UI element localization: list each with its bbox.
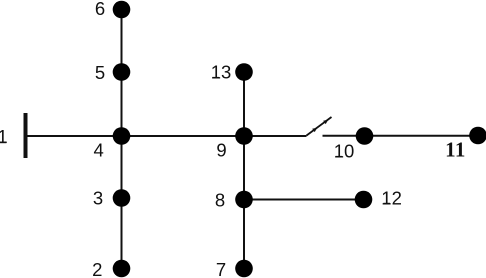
- svg-text:10: 10: [334, 141, 355, 162]
- node 6: [113, 1, 131, 19]
- node 9 (junction): [235, 127, 253, 145]
- node 3: [113, 189, 131, 207]
- node 7: [235, 260, 253, 278]
- svg-text:11: 11: [445, 137, 466, 161]
- node 11: [469, 127, 486, 145]
- wire: main feeder horizontal from bus 1 bar to switch gap: [26, 135, 307, 137]
- bus bar node 1: [24, 113, 28, 158]
- node 8 (junction): [235, 191, 253, 209]
- svg-text:12: 12: [381, 187, 402, 208]
- svg-text:3: 3: [93, 187, 103, 208]
- node 5: [113, 63, 131, 81]
- node 12: [355, 191, 373, 209]
- svg-text:2: 2: [92, 259, 102, 278]
- wire: branch from node 8 to node 12: [244, 199, 364, 201]
- node 4 (junction): [113, 127, 131, 145]
- wire: right feeder horizontal through node 10 to node 11: [323, 135, 479, 137]
- switch (open tie switch between node 9 and node 10): [307, 117, 332, 136]
- node 10: [356, 127, 374, 145]
- svg-text:4: 4: [94, 139, 104, 160]
- wire: middle lateral vertical (nodes 13-9-8-7): [243, 72, 245, 269]
- node 2: [113, 260, 131, 278]
- svg-text:9: 9: [216, 139, 226, 160]
- svg-text:6: 6: [95, 0, 105, 19]
- svg-text:1: 1: [0, 126, 8, 147]
- svg-text:7: 7: [216, 259, 226, 278]
- node 13: [235, 63, 253, 81]
- svg-text:8: 8: [215, 189, 225, 210]
- wire: left lateral vertical (nodes 6-5-4-3-2): [121, 10, 123, 269]
- svg-text:13: 13: [211, 62, 232, 83]
- svg-text:5: 5: [95, 62, 105, 83]
